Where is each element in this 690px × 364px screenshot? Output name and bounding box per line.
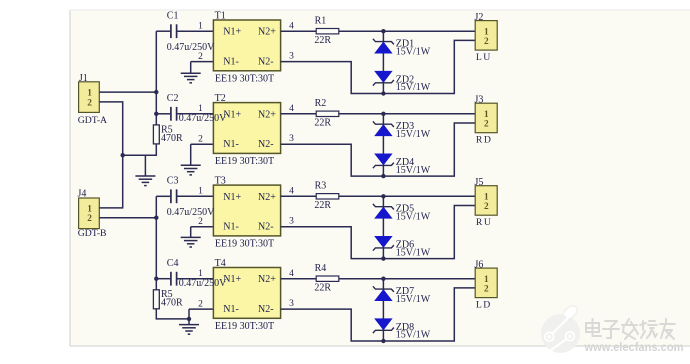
wire R5b bottom to ground rail <box>156 309 189 319</box>
junction node zener bottom row 4 <box>381 339 385 343</box>
junction node zener top row 1 <box>381 29 385 33</box>
svg-text:22R: 22R <box>314 35 331 46</box>
resistor R5 (upper) <box>153 125 159 144</box>
zener diode ZD2 <box>373 71 394 85</box>
svg-text:2: 2 <box>87 98 92 108</box>
svg-text:15V/1W: 15V/1W <box>396 165 431 176</box>
label T4 <box>215 258 226 269</box>
svg-text:1: 1 <box>198 22 203 32</box>
svg-text:N2-: N2- <box>258 139 274 150</box>
wire J1 pin1 to cap column <box>99 91 156 93</box>
wire T1 pin4 to R1 <box>281 30 317 32</box>
junction node J1.1/cap column <box>154 90 158 94</box>
label RU <box>476 217 492 228</box>
svg-text:2: 2 <box>198 52 203 62</box>
label J4 <box>78 189 87 200</box>
junction node zener bottom row 2 <box>381 174 385 178</box>
svg-text:T4: T4 <box>215 258 226 269</box>
svg-text:J5: J5 <box>475 177 484 188</box>
svg-text:N1+: N1+ <box>223 192 241 203</box>
label 15V/1W (ZD5) <box>396 212 431 223</box>
svg-text:2: 2 <box>198 300 203 310</box>
label C1 <box>167 11 179 22</box>
pin number 3 (T3) <box>289 217 294 227</box>
svg-text:N2+: N2+ <box>258 274 276 285</box>
wire zener column row 4 <box>382 279 384 341</box>
svg-text:N2+: N2+ <box>258 192 276 203</box>
connector J3 <box>475 103 497 133</box>
svg-text:N2+: N2+ <box>258 27 276 38</box>
junction node zener top row 4 <box>381 277 385 281</box>
label 0.47u/250V (C1) <box>167 42 215 53</box>
label 15V/1W (ZD4) <box>396 165 431 176</box>
svg-text:22R: 22R <box>314 282 331 293</box>
label ZD8 <box>396 322 414 333</box>
svg-text:15V/1W: 15V/1W <box>396 47 431 58</box>
ground G1 stem <box>190 62 192 74</box>
connector J2 <box>475 21 497 50</box>
label 0.47u/250V (C3) <box>167 207 215 218</box>
pin number 1 (T3) <box>198 187 203 197</box>
junction node zener top row 3 <box>381 194 385 198</box>
pin number 4 (T2) <box>289 104 294 114</box>
svg-text:22R: 22R <box>314 118 331 129</box>
svg-text:LD: LD <box>476 299 492 310</box>
label 0.47u/250V (C2) <box>179 113 227 124</box>
label C2 <box>167 93 179 104</box>
svg-text:GDT-B: GDT-B <box>78 228 107 239</box>
svg-text:2: 2 <box>87 214 92 224</box>
svg-text:T2: T2 <box>215 93 226 104</box>
svg-text:15V/1W: 15V/1W <box>396 82 431 93</box>
ground G1 <box>181 73 201 83</box>
pin number 4 (T4) <box>289 269 294 279</box>
wire J4 pin2 to cap column <box>99 217 156 219</box>
svg-text:RD: RD <box>476 134 492 145</box>
svg-text:2: 2 <box>198 135 203 145</box>
svg-text:0.47u/250V: 0.47u/250V <box>167 207 215 218</box>
wire T3 pin3 return loop <box>281 206 476 259</box>
svg-text:R1: R1 <box>315 16 327 27</box>
resistor R5 (lower) <box>153 290 159 309</box>
svg-text:2: 2 <box>484 37 489 47</box>
junction node zener bottom row 1 <box>381 91 385 95</box>
svg-text:3: 3 <box>289 299 294 309</box>
sheet border top <box>70 9 690 11</box>
svg-text:470R: 470R <box>161 298 183 309</box>
svg-text:N2-: N2- <box>258 222 274 233</box>
svg-text:1: 1 <box>87 89 92 99</box>
wire R4 to J6 pin1 <box>339 278 475 280</box>
resistor R4 <box>316 276 339 281</box>
label J5 <box>475 177 484 188</box>
svg-text:0.47u/250V: 0.47u/250V <box>167 42 215 53</box>
svg-text:C4: C4 <box>167 258 179 269</box>
svg-text:T1: T1 <box>215 11 226 22</box>
wire T4 pin2 <box>189 308 213 310</box>
sheet border bottom <box>70 345 690 347</box>
wire zener column row 2 <box>382 114 384 176</box>
svg-text:N1-: N1- <box>223 304 239 315</box>
ground G3 <box>135 176 155 186</box>
svg-text:R4: R4 <box>315 263 327 274</box>
junction node common rail / ground branch <box>121 153 125 157</box>
label EE19 30T:30T (T3) <box>215 239 274 250</box>
label EE19 30T:30T (T1) <box>215 74 274 85</box>
label ZD2 <box>396 74 414 85</box>
svg-text:4: 4 <box>289 187 294 197</box>
capacitor C2 <box>156 107 213 121</box>
junction node zener top row 2 <box>381 112 385 116</box>
wire T2 pin4 to R2 <box>281 113 317 115</box>
ground G5 <box>179 325 199 335</box>
connector J4 <box>79 198 100 229</box>
transformer T1 <box>213 20 280 71</box>
svg-text:22R: 22R <box>314 200 331 211</box>
svg-text:15V/1W: 15V/1W <box>396 129 431 140</box>
capacitor C4 <box>156 272 213 286</box>
watermark text 电子发烧友 (drawn strokes) <box>586 319 675 339</box>
pin number 2 (T3) <box>198 217 203 227</box>
pin number 4 (T3) <box>289 187 294 197</box>
label ZD3 <box>396 121 414 132</box>
svg-text:R3: R3 <box>315 181 327 192</box>
label ZD6 <box>396 240 414 251</box>
pin number 2 (T2) <box>198 135 203 145</box>
pin number 3 (T2) <box>289 134 294 144</box>
svg-text:LU: LU <box>476 52 492 63</box>
wire T4 pin3 return loop <box>281 288 476 341</box>
svg-text:T3: T3 <box>215 176 226 187</box>
svg-text:N1-: N1- <box>223 139 239 150</box>
label C3 <box>167 176 179 187</box>
label ZD4 <box>396 157 414 168</box>
label T1 <box>215 11 226 22</box>
label 15V/1W (ZD8) <box>396 330 431 341</box>
wire zener column row 3 <box>382 196 384 258</box>
svg-text:0.47u/250V: 0.47u/250V <box>179 278 227 289</box>
label ZD1 <box>396 38 414 49</box>
label 22R (R3) <box>314 200 331 211</box>
svg-text:15V/1W: 15V/1W <box>396 247 431 258</box>
zener diode ZD1 <box>373 39 394 53</box>
watermark logo (elecfans) <box>541 306 580 353</box>
pin number 3 (T4) <box>289 299 294 309</box>
ground G4 <box>181 237 201 247</box>
svg-text:N1+: N1+ <box>223 27 241 38</box>
junction node C2 tee <box>154 112 158 116</box>
svg-text:J1: J1 <box>79 73 88 84</box>
label LU <box>476 52 492 63</box>
svg-text:J6: J6 <box>475 259 484 270</box>
ground G4 stem <box>190 227 192 238</box>
svg-text:470R: 470R <box>161 133 183 144</box>
zener diode ZD7 <box>373 286 394 300</box>
wire R3 to J5 pin1 <box>339 195 475 197</box>
label T2 <box>215 93 226 104</box>
svg-text:4: 4 <box>289 104 294 114</box>
svg-text:3: 3 <box>289 52 294 62</box>
pin number 4 (T1) <box>289 21 294 31</box>
pin number 2 (T1) <box>198 52 203 62</box>
pin number 1 (T4) <box>198 269 203 279</box>
svg-text:C1: C1 <box>167 11 179 22</box>
capacitor C1 <box>156 24 213 38</box>
wire cap column top half <box>155 31 157 125</box>
transformer T4 <box>213 268 280 319</box>
connector J6 <box>475 268 497 298</box>
watermark text www.elecfans.com <box>584 340 684 354</box>
svg-text:15V/1W: 15V/1W <box>396 212 431 223</box>
junction node zener bottom row 3 <box>381 256 385 260</box>
wire zener column row 1 <box>382 31 384 93</box>
wire R1 to J2 pin1 <box>339 30 475 32</box>
label 15V/1W (ZD1) <box>396 47 431 58</box>
ground G3 stem <box>144 155 146 176</box>
label 0.47u/250V (C4) <box>179 278 227 289</box>
label 470R (upper) <box>161 133 183 144</box>
label 15V/1W (ZD3) <box>396 129 431 140</box>
svg-text:15V/1W: 15V/1W <box>396 294 431 305</box>
wire T1 pin3 return loop <box>281 40 476 93</box>
ground G2 stem <box>190 144 192 165</box>
svg-text:4: 4 <box>289 269 294 279</box>
wire T4 pin4 to R4 <box>281 278 317 280</box>
label R5 (upper) <box>161 124 173 135</box>
svg-text:R2: R2 <box>315 98 327 109</box>
wire cap column bottom half <box>155 196 157 289</box>
resistor R1 <box>316 29 339 34</box>
sheet border left <box>69 10 71 346</box>
svg-text:EE19 30T:30T: EE19 30T:30T <box>215 321 274 332</box>
label EE19 30T:30T (T2) <box>215 156 274 167</box>
label RD <box>476 134 492 145</box>
resistor R3 <box>316 194 339 199</box>
label J3 <box>475 95 484 106</box>
svg-text:J4: J4 <box>78 189 87 200</box>
label J1 <box>79 73 88 84</box>
label 15V/1W (ZD6) <box>396 247 431 258</box>
zener diode ZD5 <box>373 204 394 218</box>
label T3 <box>215 176 226 187</box>
svg-text:N2-: N2- <box>258 57 274 68</box>
svg-text:2: 2 <box>198 217 203 227</box>
zener diode ZD3 <box>373 121 394 135</box>
svg-text:N2+: N2+ <box>258 109 276 120</box>
label GDT-B <box>78 228 107 239</box>
label ZD7 <box>396 286 414 297</box>
svg-text:15V/1W: 15V/1W <box>396 330 431 341</box>
junction node C4 tee <box>154 277 158 281</box>
connector J1 <box>79 82 100 113</box>
wire R2 to J3 pin1 <box>339 113 475 115</box>
svg-text:www.elecfans.com: www.elecfans.com <box>584 340 684 354</box>
pin number 2 (T4) <box>198 300 203 310</box>
label 15V/1W (ZD2) <box>396 82 431 93</box>
ground G5 stem <box>188 309 190 325</box>
connector J5 <box>475 186 497 216</box>
wire R5a bottom <box>155 144 157 156</box>
svg-text:1: 1 <box>198 187 203 197</box>
label EE19 30T:30T (T4) <box>215 321 274 332</box>
label LD <box>476 299 492 310</box>
wire T2 pin3 return loop <box>281 123 476 176</box>
wire common rail to R5a and ground <box>123 154 157 156</box>
label ZD5 <box>396 204 414 215</box>
svg-text:3: 3 <box>289 217 294 227</box>
pin number 3 (T1) <box>289 52 294 62</box>
svg-text:J3: J3 <box>475 95 484 106</box>
label 15V/1W (ZD7) <box>396 294 431 305</box>
wire T3 pin4 to R3 <box>281 195 317 197</box>
label 22R (R4) <box>314 282 331 293</box>
svg-text:2: 2 <box>484 284 489 294</box>
wire J1 pin2 to common rail <box>99 102 122 208</box>
junction node J4.2/cap column <box>154 216 158 220</box>
label J2 <box>475 12 484 23</box>
svg-text:EE19 30T:30T: EE19 30T:30T <box>215 156 274 167</box>
label J6 <box>475 259 484 270</box>
label R2 <box>315 98 327 109</box>
label R1 <box>315 16 327 27</box>
pin number 1 (T2) <box>198 104 203 114</box>
svg-text:EE19 30T:30T: EE19 30T:30T <box>215 239 274 250</box>
svg-text:0.47u/250V: 0.47u/250V <box>179 113 227 124</box>
svg-text:N1-: N1- <box>223 57 239 68</box>
zener diode ZD6 <box>373 237 394 251</box>
svg-text:N1-: N1- <box>223 222 239 233</box>
label R4 <box>315 263 327 274</box>
svg-text:3: 3 <box>289 134 294 144</box>
wire T1 pin2 <box>191 61 214 63</box>
svg-text:2: 2 <box>484 119 489 129</box>
resistor R2 <box>316 111 339 116</box>
label 470R (lower) <box>161 298 183 309</box>
pin number 1 (T1) <box>198 22 203 32</box>
svg-text:C2: C2 <box>167 93 179 104</box>
label C4 <box>167 258 179 269</box>
wire T3 pin2 <box>191 226 214 228</box>
svg-text:2: 2 <box>484 202 489 212</box>
ground G2 <box>181 165 201 175</box>
label 22R (R2) <box>314 118 331 129</box>
svg-text:EE19 30T:30T: EE19 30T:30T <box>215 74 274 85</box>
transformer T3 <box>213 185 280 236</box>
wire T2 pin2 <box>191 143 214 145</box>
svg-text:4: 4 <box>289 21 294 31</box>
transformer T2 <box>213 103 280 154</box>
label 22R (R1) <box>314 35 331 46</box>
svg-text:GDT-A: GDT-A <box>78 115 107 126</box>
zener diode ZD8 <box>373 319 394 333</box>
svg-text:J2: J2 <box>475 12 484 23</box>
label R5 (lower) <box>161 289 173 300</box>
label R3 <box>315 181 327 192</box>
junction node R5b/G5 <box>187 317 191 321</box>
label GDT-A <box>78 115 107 126</box>
zener diode ZD4 <box>373 154 394 168</box>
svg-text:N2-: N2- <box>258 304 274 315</box>
svg-text:C3: C3 <box>167 176 179 187</box>
svg-text:RU: RU <box>476 217 492 228</box>
capacitor C3 <box>156 189 213 203</box>
